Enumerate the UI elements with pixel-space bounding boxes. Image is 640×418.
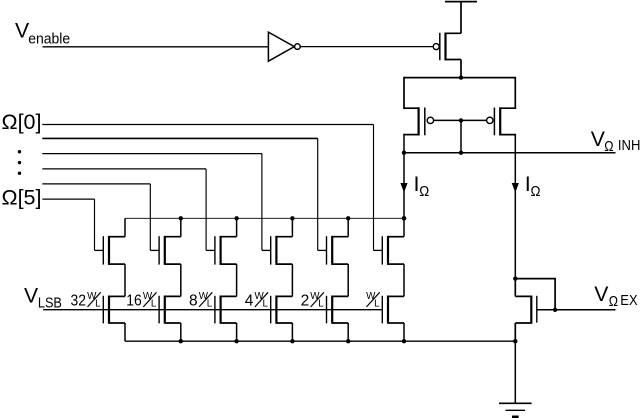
junction ground rail / M14 source / ground bbox=[513, 339, 517, 343]
transistor M8 lower NMOS branch 1 bbox=[103, 296, 125, 324]
wire gate drop branch 2 bbox=[149, 184, 151, 251]
transistor P3 mirror PMOS right bbox=[487, 107, 517, 135]
wire branch 1 series connection bbox=[124, 264, 126, 296]
transistor M6 upper NMOS branch 5 bbox=[318, 236, 349, 265]
junction rail / branch 2 drain bbox=[179, 216, 183, 220]
junction rail / P2 branch / branch6 drain bbox=[402, 216, 406, 220]
wire gate drop branch 5 bbox=[317, 138, 319, 250]
wire branch 2 series connection bbox=[180, 264, 182, 296]
ellipsis dots bbox=[18, 150, 21, 153]
current arrow I_Omega right bbox=[512, 183, 519, 193]
svg-text:V: V bbox=[24, 284, 39, 307]
wire bus line 4 bbox=[42, 168, 206, 170]
wire P2 drain to array drain rail bbox=[403, 153, 405, 219]
wire rail to P2 source bbox=[403, 77, 405, 108]
transistor M11 lower NMOS branch 4 bbox=[271, 296, 293, 324]
transistor M9 lower NMOS branch 2 bbox=[159, 296, 181, 324]
wire P3 drain to M14 drain bbox=[514, 135, 516, 279]
junction ground rail / branch 4 source bbox=[290, 339, 294, 343]
transistor M10 lower NMOS branch 3 bbox=[215, 296, 237, 324]
wire branch 3 source to ground rail bbox=[236, 323, 238, 341]
transistor M12 lower NMOS branch 5 bbox=[327, 296, 349, 324]
wire rail to P3 source bbox=[514, 77, 516, 108]
svg-text:Ω: Ω bbox=[609, 293, 618, 310]
junction ground rail / branch 6 source bbox=[402, 339, 406, 343]
junction rail / branch 6 drain bbox=[402, 216, 406, 220]
junction M1 drain / mirror rail bbox=[459, 75, 463, 79]
svg-text:INH: INH bbox=[618, 137, 640, 154]
junction diode tap / V_INH line bbox=[459, 151, 463, 155]
svg-text:4: 4 bbox=[245, 292, 254, 309]
transistor P2 mirror PMOS left bbox=[403, 107, 433, 135]
svg-text:Ω[5]: Ω[5] bbox=[2, 186, 42, 210]
transistor M4 upper NMOS branch 3 bbox=[206, 236, 237, 265]
VDD supply bar bbox=[445, 1, 477, 3]
wire gate drop branch 4 bbox=[261, 154, 263, 251]
wire V_enable to inverter input bbox=[43, 46, 269, 48]
transistor M2 upper NMOS branch 1 bbox=[95, 236, 126, 265]
svg-text:L: L bbox=[374, 299, 380, 310]
wire M14 drain bbox=[514, 279, 516, 297]
wire branch 2 source to ground rail bbox=[180, 323, 182, 341]
transistor M14 output NMOS bbox=[515, 296, 537, 324]
svg-text:L: L bbox=[318, 299, 324, 310]
wire branch 6 source to ground rail bbox=[403, 323, 405, 341]
wire bus line 3 bbox=[42, 153, 262, 155]
wire M14 gate bbox=[537, 309, 555, 311]
svg-text:V: V bbox=[594, 283, 609, 306]
wire to ground bbox=[514, 341, 516, 403]
wire branch 4 source to ground rail bbox=[291, 323, 293, 341]
wire VDD to M1 source bbox=[460, 2, 462, 34]
svg-text:2: 2 bbox=[301, 292, 310, 309]
junction M14 drain / gate loop bbox=[513, 276, 517, 280]
junction rail / branch 3 drain bbox=[234, 216, 238, 220]
transistor M5 upper NMOS branch 4 bbox=[262, 236, 293, 265]
svg-text:Ω[0]: Ω[0] bbox=[2, 110, 42, 134]
wire M14 diode loop vertical bbox=[554, 278, 556, 310]
wire node V_INH bbox=[404, 152, 616, 154]
junction ground rail / branch 3 source bbox=[234, 339, 238, 343]
wire bus line &#937;[5] bbox=[42, 198, 94, 200]
wire branch 1 upper drain bbox=[124, 218, 126, 236]
svg-text:L: L bbox=[95, 299, 101, 310]
value label W/L branch 5 bbox=[310, 291, 324, 310]
wire node V_EX bbox=[555, 309, 615, 311]
value label W/L branch 1 bbox=[87, 291, 101, 310]
wire mirror top rail bbox=[404, 77, 515, 79]
transistor M7 upper NMOS branch 6 bbox=[374, 236, 405, 265]
wire gate drop branch 1 bbox=[94, 199, 96, 250]
wire branch 3 series connection bbox=[236, 264, 238, 296]
transistor M1 enable PMOS bbox=[433, 33, 461, 61]
svg-text:enable: enable bbox=[28, 32, 70, 48]
transistor M3 upper NMOS branch 2 bbox=[150, 236, 181, 265]
junction rail / branch 4 drain bbox=[290, 216, 294, 220]
value label W/L branch 2 bbox=[143, 291, 157, 310]
wire P2 drain down bbox=[403, 135, 405, 153]
svg-text:EX: EX bbox=[620, 292, 637, 309]
wire branch 4 series connection bbox=[291, 264, 293, 296]
svg-text:8: 8 bbox=[189, 292, 198, 309]
wire M1 drain to mirror source rail bbox=[460, 60, 462, 78]
wire branch 1 source to ground rail bbox=[124, 323, 126, 341]
wire inverter output to M1 gate bbox=[300, 46, 433, 48]
svg-text:Ω: Ω bbox=[604, 138, 613, 155]
svg-text:32: 32 bbox=[71, 292, 87, 309]
wire M14 source to ground rail bbox=[514, 323, 516, 341]
wire branch 5 series connection bbox=[347, 264, 349, 296]
ground bbox=[499, 403, 532, 417]
svg-text:16: 16 bbox=[126, 292, 142, 309]
wire node V_LSB (lower gates) bbox=[43, 309, 382, 311]
wire bus line 2 bbox=[42, 137, 317, 139]
svg-text:LSB: LSB bbox=[38, 294, 62, 311]
svg-text:Ω: Ω bbox=[419, 183, 429, 200]
wire gate drop branch 6 bbox=[373, 125, 375, 251]
junction gate wire / diode tap bbox=[459, 118, 463, 122]
wire branch 2 upper drain bbox=[180, 218, 182, 236]
wire branch 3 upper drain bbox=[236, 218, 238, 236]
svg-text:Ω: Ω bbox=[531, 183, 541, 200]
wire bus line 5 bbox=[42, 183, 150, 185]
value label W/L branch 4 bbox=[255, 291, 269, 310]
wire diode connection to V_INH node bbox=[460, 120, 462, 152]
wire mirror gates bbox=[434, 119, 487, 121]
wire branch 5 upper drain bbox=[347, 218, 349, 236]
wire array drain rail bbox=[125, 217, 404, 219]
wire branch 5 source to ground rail bbox=[347, 323, 349, 341]
transistor M13 lower NMOS branch 6 bbox=[382, 296, 404, 324]
junction P2 drain / V_INH line bbox=[402, 151, 406, 155]
value label W/L branch 6 bbox=[366, 291, 380, 310]
svg-text:L: L bbox=[263, 299, 269, 310]
junction ground rail / branch 2 source bbox=[179, 339, 183, 343]
wire branch 6 series connection bbox=[403, 264, 405, 296]
junction ground rail / branch 5 source bbox=[346, 339, 350, 343]
wire branch 4 upper drain bbox=[291, 218, 293, 236]
wire bus line &#937;[0] bbox=[42, 124, 373, 126]
inverter U1 bbox=[268, 32, 294, 61]
svg-text:L: L bbox=[151, 299, 157, 310]
current arrow I_Omega left bbox=[400, 183, 407, 193]
wire ground rail bbox=[125, 340, 515, 342]
wire branch 6 upper drain bbox=[403, 218, 405, 236]
value label W/L branch 3 bbox=[199, 291, 213, 310]
junction gate loop / V_EX line bbox=[553, 308, 557, 312]
junction rail / branch 5 drain bbox=[346, 216, 350, 220]
svg-text:L: L bbox=[207, 299, 213, 310]
wire M14 diode loop horizontal bbox=[515, 278, 555, 280]
wire gate drop branch 3 bbox=[205, 169, 207, 251]
